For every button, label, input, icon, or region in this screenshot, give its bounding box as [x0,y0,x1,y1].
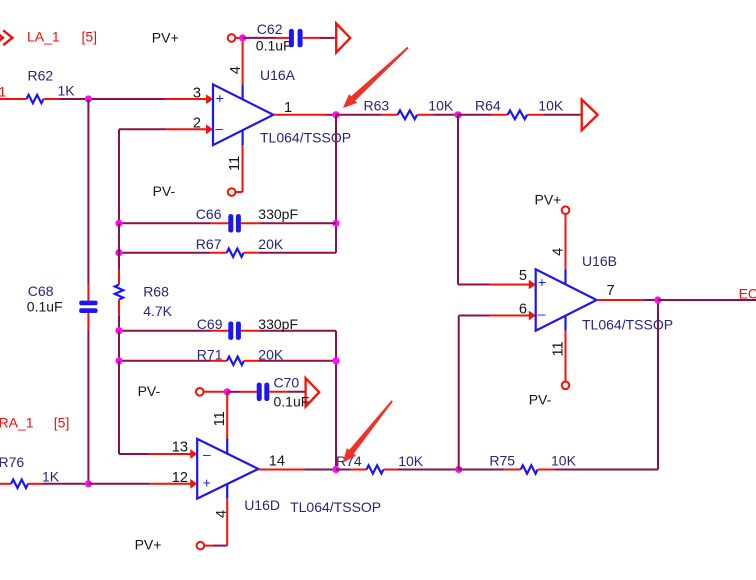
wire: junction to R74 [336,469,351,471]
pin arrow U16B pin6 [529,311,536,321]
svg-text:R68: R68 [143,284,169,300]
svg-text:20K: 20K [258,236,284,252]
pin arrow U16D pin12 [190,479,197,489]
power symbol PV+ circle (U16B pin4) [562,206,570,214]
wire: R71 row right [259,360,336,362]
wire: R74/R75 junction up to U16B pin6 [458,316,460,470]
pin lead U16B pin6 [489,315,530,317]
svg-text:0.1uF: 0.1uF [274,393,310,409]
capacitor C69 [228,322,241,340]
wire: R74 to mid junction [398,469,459,471]
wire: C66 row left [119,222,211,224]
power symbol PV- circle (U16B pin11) [562,382,570,390]
wire: PV- circle to pin11 junction [204,391,228,393]
pin lead C70 right [269,391,288,393]
junction C69 left node [115,327,122,334]
wire: junction to R75 [459,469,505,471]
svg-text:U16D: U16D [244,497,280,513]
power symbol PV- circle (U16D pin11) [196,388,204,396]
svg-text:+: + [216,90,224,106]
svg-text:TL064/TSSOP: TL064/TSSOP [260,129,351,145]
svg-text:5: 5 [519,268,527,284]
wire: R63/R64 junction down to U16B pin5 [457,115,459,285]
svg-text:C62: C62 [257,21,283,37]
junction R71 left node [115,357,122,364]
wire: feedback vertical R71 row to U16D pin13 row [118,361,120,454]
wire: output junction to right edge (net EC) [658,299,756,301]
resistor R71 [211,357,259,365]
op-amp U16B [536,269,597,330]
svg-text:[5]: [5] [54,414,70,430]
svg-text:4: 4 [550,248,566,256]
wire: U16D output pin14 lead [258,469,304,471]
wire: R63 to mid junction [433,114,458,116]
svg-text:PV+: PV+ [152,30,179,46]
resistor R74 [351,465,398,473]
power arrow (R64 net) [582,100,598,131]
svg-text:C66: C66 [196,206,222,222]
svg-text:R67: R67 [196,236,222,252]
svg-text:–: – [215,120,223,136]
wire: C70 to power arrow [288,391,305,393]
wire: R64 to power arrow [543,114,581,116]
wire: R76 to bottom junction [44,483,88,485]
capacitor C62 [289,29,303,47]
pin arrow U16D pin13 [190,449,197,459]
svg-text:U16A: U16A [260,67,296,83]
pin lead U16B pin5 [489,284,530,286]
resistor R62 [27,95,60,103]
svg-text:C70: C70 [274,375,300,391]
junction C66 right node [332,220,339,227]
svg-text:+: + [538,274,546,290]
power symbol PV+ circle (U16A pin4) [228,34,236,42]
annotation arrow 1 (points at U16A output node) [343,47,409,108]
svg-text:EC: EC [739,286,756,302]
svg-text:LA_1: LA_1 [27,28,60,44]
wire: output junction to R63 [336,114,382,116]
wire: node A to U16A pin3 [88,98,164,100]
svg-text:U16B: U16B [582,253,617,269]
wire: feedback vertical R68 bottom to R71 row [118,331,120,361]
wire: vertical node A down to R76 node (through C68) [87,99,89,285]
junction R74/R75 node [455,466,462,473]
wire: R62 to node A junction [59,98,88,100]
svg-text:TL064/TSSOP: TL064/TSSOP [582,317,673,333]
svg-text:1: 1 [0,84,7,100]
pin lead C69 right [241,330,260,332]
svg-text:0.1uF: 0.1uF [27,299,63,315]
pin lead U16A pin4 power [242,42,244,86]
power symbol PV- circle (U16A pin11) [228,188,236,196]
resistor R67 [211,249,259,257]
resistor R68 (vertical) [115,269,123,315]
svg-text:1K: 1K [42,469,60,485]
power arrow (C62 net) [336,23,350,52]
svg-text:[5]: [5] [82,28,98,44]
capacitor C68 [79,301,97,313]
wire: junction to C62 [243,37,276,39]
annotation arrow 2 (points at R74 node) [343,400,393,463]
junction C62/pin4 node [239,34,246,41]
pin lead U16A pin3 [164,98,208,100]
pin arrow U16A pin2 [206,124,213,134]
wire: pin13 row [119,453,148,455]
wire: C62 to power arrow [320,37,335,39]
svg-text:PV+: PV+ [135,536,162,552]
net label chevrons [0,30,12,45]
wire: pin11 to PV- circle [236,191,243,193]
pin lead C66 right [241,222,260,224]
pin lead C69 left [211,330,228,332]
pin lead C66 left [211,222,228,224]
pin arrow U16B pin5 [529,280,536,290]
svg-text:11: 11 [227,156,243,171]
wire: pin7 to output junction [644,299,658,301]
op-amp U16D [197,439,258,499]
svg-text:PV-: PV- [529,391,552,407]
svg-text:10K: 10K [538,98,564,114]
resistor R75 [505,465,556,473]
svg-text:0.1uF: 0.1uF [256,37,292,53]
junction R67 left node [115,249,122,256]
svg-text:PV-: PV- [153,183,176,199]
pin lead U16D pin13 [148,453,192,455]
svg-text:R64: R64 [475,98,501,114]
pin lead U16D pin12 [149,483,192,485]
svg-text:PV-: PV- [138,383,161,399]
svg-text:330pF: 330pF [258,206,298,222]
junction R63/R64 node [454,111,461,118]
svg-text:C69: C69 [197,316,223,332]
svg-text:RA_1: RA_1 [0,414,34,430]
svg-text:14: 14 [269,453,285,469]
svg-text:10K: 10K [398,453,424,469]
pin lead U16B pin11 power [565,331,567,382]
pin lead C62 left [276,37,290,39]
wire: right vertical up to U16B output [657,300,659,470]
wire: PV+ circle to C62 junction [235,37,242,39]
pin lead U16A pin11 power [242,145,244,192]
svg-text:7: 7 [606,283,614,299]
pin lead U16A pin2 [165,128,208,130]
junction R71 right node [332,357,339,364]
wire: U16B output pin7 lead [597,299,644,301]
power arrow (C70 net) [306,378,320,407]
capacitor C66 [228,214,241,232]
wire: R68 to C69 row [118,315,120,331]
pin lead C68 top [87,284,89,301]
wire: C69 row left [119,330,211,332]
junction U16D pin11/C70 node [224,388,231,395]
svg-text:1K: 1K [58,83,76,99]
wire: junction to U16D pin12 [88,483,149,485]
wire: U16A pin2 from feedback vertical [119,128,165,130]
svg-text:R75: R75 [489,453,515,469]
svg-text:13: 13 [172,439,188,455]
capacitor C70 [257,383,270,401]
junction U16D output node [332,466,339,473]
svg-text:PV+: PV+ [535,192,562,208]
pin lead U16D pin4 power [226,499,228,546]
svg-text:6: 6 [519,302,527,318]
svg-text:TL064/TSSOP: TL064/TSSOP [290,499,381,515]
pin lead U16D pin11 power [226,392,228,440]
junction U16A output node [332,111,339,118]
svg-text:R63: R63 [364,98,390,114]
svg-text:1: 1 [284,100,292,116]
junction C66 left node [115,220,122,227]
pin lead C70 left [241,391,257,393]
pin lead C68 bottom [87,313,89,330]
pin lead C62 right [303,37,320,39]
wire: feedback vertical x=119 pin2 to C66 row [118,129,120,223]
svg-text:20K: 20K [258,346,284,362]
svg-text:R71: R71 [197,346,223,362]
svg-text:C68: C68 [28,283,54,299]
svg-text:3: 3 [193,86,201,102]
svg-text:R76: R76 [0,454,24,470]
wire: R75 to right vertical [555,469,658,471]
wire: C68 down to R76 junction [87,330,89,484]
wire: right vertical C69 row to R74 node [335,331,337,470]
wire: R67 row right [259,252,336,254]
wire: feedback vertical C66 row to R68 [118,223,120,269]
pin lead U16B pin4 power [565,214,567,271]
op-amp U16A [213,84,273,145]
svg-text:10K: 10K [551,453,577,469]
wire: pin14 to R74 junction [304,469,336,471]
svg-text:–: – [538,306,546,322]
power symbol PV+ circle (U16D pin4) [197,542,205,550]
wire: R71 row left [119,360,211,362]
junction U16B output node [654,296,661,303]
wire: pin4 corner to PV+ circle [213,545,227,547]
svg-text:4.7K: 4.7K [143,303,172,319]
svg-text:11: 11 [550,341,566,356]
wire: junction to C70 [227,391,241,393]
svg-text:10K: 10K [428,98,454,114]
junction R76/vertical node [85,480,92,487]
svg-text:R62: R62 [28,67,54,83]
wire: R67 row left [119,252,211,254]
svg-text:–: – [203,446,211,462]
svg-text:11: 11 [212,411,228,426]
wire: pin1 to output junction [327,114,336,116]
resistor R76 [0,480,44,488]
wire: C69 row right [259,330,336,332]
svg-text:+: + [203,475,211,491]
wire: U16A output pin1 lead [273,114,327,116]
resistor R63 [382,110,434,119]
wire: U16A output junction down to R67 row [335,115,337,253]
junction node A (R62/vertical) [85,95,92,102]
pin arrow U16A pin3 [206,94,213,104]
wire: net LA_1 input rail to R62 [0,98,27,100]
resistor R64 [492,110,544,119]
svg-text:330pF: 330pF [258,316,298,332]
wire: junction to R64 [458,114,492,116]
wire: C66 row right [259,222,336,224]
